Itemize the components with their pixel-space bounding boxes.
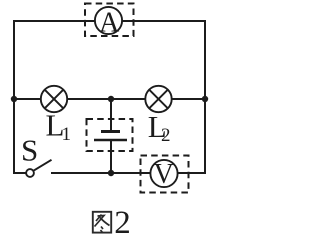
node right junction [202, 96, 208, 102]
wire top [14, 20, 205, 22]
switch lever [33, 160, 51, 171]
caption figure-2 glyph 图 [93, 212, 111, 233]
svg-text:S: S [21, 133, 38, 168]
wire bottom-left to switch [13, 172, 26, 174]
node battery top junction [108, 96, 114, 102]
battery dashed box [87, 119, 133, 151]
svg-text:2: 2 [161, 125, 171, 146]
node battery bottom junction [108, 170, 114, 176]
battery plate long (positive) [94, 139, 127, 141]
svg-text:V: V [154, 159, 174, 190]
wire middle [14, 98, 205, 100]
lamp L1 [41, 86, 67, 112]
svg-text:A: A [99, 8, 120, 39]
node left junction [11, 96, 17, 102]
svg-text:1: 1 [62, 124, 72, 145]
ammeter A [95, 7, 122, 39]
wire battery bottom lead [110, 141, 112, 173]
ammeter dashed box [85, 4, 134, 37]
voltmeter dashed box [141, 156, 189, 193]
switch S [26, 160, 51, 177]
wire battery top lead [110, 99, 112, 130]
battery plate short (negative) [101, 130, 120, 133]
wire left [13, 20, 15, 174]
battery cell [94, 99, 127, 173]
lamp L2 [145, 86, 171, 112]
wire right [204, 20, 206, 174]
svg-text:2: 2 [114, 205, 131, 241]
wire bottom-right from switch to right [51, 172, 205, 174]
voltmeter V [150, 159, 177, 190]
